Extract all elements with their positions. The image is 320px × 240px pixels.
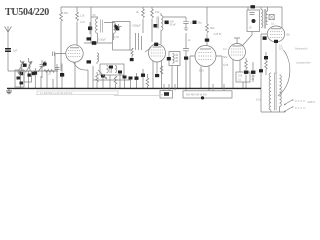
wires V2 bottom leads: [153, 61, 162, 89]
capacitor blob under V4 area b: [251, 71, 255, 74]
svg-text:0,05: 0,05: [114, 36, 119, 39]
ground symbol: [6, 89, 12, 94]
detector can box: [113, 22, 131, 51]
capacitor blob on rail: [251, 5, 256, 8]
envelope arc V1: [74, 62, 89, 70]
svg-text:50k: 50k: [223, 55, 228, 59]
capacitor blob L1: [23, 64, 27, 67]
capacitor C blob at R4: [205, 39, 209, 42]
svg-text:1nF: 1nF: [13, 49, 18, 53]
capacitor blob right cluster: [43, 63, 47, 66]
tuning coil L1: [18, 60, 25, 88]
svg-text:0,1: 0,1: [271, 23, 275, 26]
svg-text:0,05 5k: 0,05 5k: [214, 33, 223, 36]
capacitor blobs under V4 area: [244, 71, 248, 74]
oscillator coil box: [100, 64, 124, 75]
svg-text:220 V: 220 V: [308, 100, 316, 104]
grid cap blob above V2: [154, 43, 158, 46]
wires can area to tube V2: [136, 33, 142, 50]
wire V4 plate diagonal to output stage: [242, 32, 252, 47]
resistor mixer c: [146, 74, 149, 88]
wire V3 left lead: [190, 56, 195, 88]
svg-text:0,05µF: 0,05µF: [98, 39, 106, 42]
capacitor blob right of V1 top: [87, 37, 92, 40]
IF transformer coil L6: [157, 13, 163, 44]
top B+ rail: [61, 6, 282, 8]
capacitor blob L6: [165, 21, 169, 25]
capacitor C6 blob on AVC line: [92, 41, 97, 45]
wires V4 bottom leads: [233, 60, 240, 88]
wire V1 left lead: [55, 54, 66, 72]
labels blobs: [252, 76, 256, 81]
label cathode: [279, 45, 284, 51]
IF coil L5: [104, 23, 115, 41]
junction dot box 2: [201, 96, 204, 99]
capacitor blob mixer b: [141, 74, 145, 77]
wire grid arrow into V2: [145, 47, 152, 52]
wire V3 right lead: [216, 56, 222, 88]
capacitor bars on lead x57: [55, 68, 60, 70]
horizontal wire osc cluster: [93, 79, 130, 81]
tube V1 converter: [66, 45, 83, 62]
oscillator coupling coil: [97, 53, 99, 64]
labels column right of V3: [223, 47, 229, 67]
variable capacitor C osc: [98, 70, 107, 79]
svg-text:rot: rot: [48, 73, 51, 76]
wire antenna down to tuner: [7, 61, 9, 71]
wires osc cluster verticals: [93, 66, 131, 88]
capacitor blob C9: [193, 21, 197, 25]
svg-text:1,2k: 1,2k: [80, 14, 86, 18]
band switch box: [15, 70, 24, 87]
svg-text:50k: 50k: [210, 26, 215, 30]
blobs osc cluster: [109, 66, 113, 69]
wires tuner cluster to bus: [35, 68, 53, 88]
capacitor blob at C10: [184, 57, 188, 60]
driver coupling box: [247, 10, 260, 32]
svg-text:≈250pF: ≈250pF: [132, 24, 141, 28]
svg-text:Netzanschl.: Netzanschl.: [295, 48, 308, 51]
wires V3 bottom leads: [201, 66, 209, 91]
resistor R5 horizontal: [44, 70, 54, 73]
capacitor C1 antenna coupling: [5, 49, 18, 53]
capacitor blob right of V1 bottom: [87, 60, 92, 63]
envelope arc right: [278, 50, 290, 96]
capacitor blob osc 2: [118, 71, 122, 74]
wire blob a to bus: [136, 73, 138, 88]
wire V4 top lead: [234, 38, 240, 44]
wires V1 bottom leads: [57, 62, 88, 88]
wire blob b to bus: [142, 69, 144, 88]
tube V4 AF driver: [229, 44, 246, 61]
wire transformer top leads: [261, 7, 268, 11]
IF coil L4: [80, 13, 102, 43]
svg-text:4,7k: 4,7k: [80, 20, 86, 24]
capacitor blob osc 4: [123, 76, 127, 79]
crossed square component: [269, 15, 275, 26]
interstage coil box: [169, 52, 180, 66]
ground bus: [7, 87, 261, 89]
wire V5 left branch: [261, 34, 267, 112]
output transformer T1: [261, 9, 268, 29]
capacitor blob left of V2: [130, 58, 134, 61]
capacitor blob L1 lower: [20, 72, 24, 75]
coil box left: [24, 71, 32, 82]
capacitor blob L2: [32, 72, 36, 75]
capacitor blob on left vertical: [259, 69, 263, 72]
coupling capacitor C10: [183, 33, 191, 91]
capacitor blob L5: [116, 27, 120, 30]
bypass capacitor C8: [183, 17, 197, 31]
capacitor blob on lead x62: [60, 73, 64, 77]
svg-text:EBC: EBC: [199, 70, 204, 73]
wires blobs to bus: [246, 62, 253, 88]
power transformer T2: [269, 73, 281, 111]
svg-text:50µ: 50µ: [198, 22, 203, 25]
cathode resistor V5: [265, 61, 268, 69]
resistor R2 plate load: [136, 7, 144, 33]
svg-text:100: 100: [279, 48, 284, 51]
resistor R6 osc: [96, 72, 99, 88]
variable capacitor C2: [38, 60, 46, 78]
capacitor blob left branch: [264, 56, 268, 59]
wire rail to driver box: [247, 7, 249, 10]
svg-text:Lautsprecher: Lautsprecher: [296, 62, 311, 65]
ticks into box row: [164, 84, 224, 91]
wire second left branch: [265, 52, 267, 75]
terminal box 2: [183, 91, 232, 98]
svg-text:6,3V: 6,3V: [256, 99, 261, 102]
svg-text:AM 460 AM-W KW: AM 460 AM-W KW: [186, 94, 207, 97]
svg-text:10k: 10k: [155, 10, 160, 14]
resistor R7 osc: [114, 76, 117, 88]
wire plate feed down: [281, 7, 283, 28]
wire box to bus: [242, 82, 244, 88]
svg-text:0,05: 0,05: [223, 63, 229, 67]
resistor R4 feed to tube V3: [206, 7, 216, 46]
wires interstage to bus: [172, 66, 178, 89]
wire bottom to switch: [261, 111, 285, 113]
capacitor blob at V5 bottom: [274, 40, 278, 43]
resistor above blob a: [245, 58, 248, 70]
mid-left horizontal wire: [8, 70, 58, 72]
resistor R1b screen feed V1: [76, 7, 86, 45]
svg-text:TU504/220: TU504/220: [5, 7, 49, 18]
svg-text:m: m: [161, 94, 163, 97]
svg-text:0,1: 0,1: [223, 47, 227, 51]
capacitor blob osc 3: [101, 75, 105, 78]
AVC line: [84, 7, 113, 43]
capacitor blob interstage: [167, 57, 171, 60]
capacitor blob at V5 left: [263, 36, 267, 40]
label right of V5: [295, 48, 311, 65]
wire V5 cathode lead down: [275, 43, 277, 74]
tube V3 demodulator: [195, 46, 216, 67]
terminal box 1: [160, 91, 173, 99]
wire L6 top to bypass cap: [163, 16, 186, 18]
heater wire right: [114, 94, 159, 96]
svg-text:25k: 25k: [238, 74, 243, 78]
resistor R3 screen feed: [151, 7, 161, 42]
resistor R1 top-left dropper: [60, 7, 69, 71]
capacitor C5 blob: [88, 27, 92, 31]
svg-text:0,1: 0,1: [238, 78, 242, 82]
resistor R8 under V2: [160, 66, 163, 74]
tube V2 IF amplifier: [149, 44, 166, 62]
antenna: [5, 26, 12, 61]
tuning coil L2: [26, 58, 33, 88]
capacitor blob x35: [34, 72, 38, 75]
tube V5 output: [267, 26, 285, 42]
capacitor blob osc 5: [129, 77, 133, 80]
wire transformer bottom leads: [271, 107, 280, 113]
wire C5 stub: [89, 22, 91, 34]
svg-text:Eb: Eb: [287, 33, 291, 37]
small resistor left of V2: [131, 48, 133, 58]
capacitor bars on V1 left lead: [53, 52, 55, 57]
capacitor blob right of R3: [154, 24, 158, 28]
capacitor blob mixer a: [135, 77, 139, 80]
mains switch: [284, 100, 306, 113]
dial strip box: [37, 91, 118, 95]
box under V4: [236, 72, 250, 82]
svg-text:50 pF: 50 pF: [170, 24, 177, 27]
svg-text:25k: 25k: [64, 11, 69, 15]
capacitor blob under V2: [155, 74, 159, 77]
svg-text:0,1 250 50k 0,1 25 10k 0: 0,1 250 50k 0,1 25 10k 0,05 1M: [40, 93, 72, 95]
